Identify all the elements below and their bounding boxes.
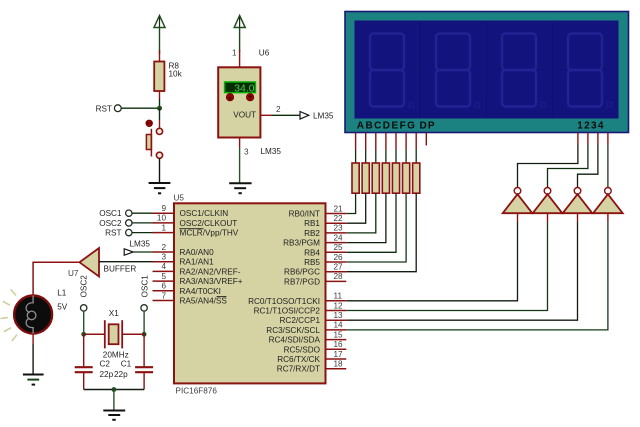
svg-text:ABCDEFG: ABCDEFG [357,120,417,131]
node C (ground rail) [112,387,117,392]
net tag LM35 (at RA0) [124,240,150,256]
wire buffer output to lamp [33,262,79,295]
svg-text:LM35: LM35 [130,240,151,249]
svg-text:RB2: RB2 [304,229,320,238]
chip right pin numbers [334,204,344,368]
svg-text:OSC2/CLKOUT: OSC2/CLKOUT [180,219,238,228]
svg-text:PIC16F876: PIC16F876 [176,387,218,396]
svg-text:25: 25 [334,243,344,252]
decimal point dots [409,103,612,108]
wire tag to pin 2 [133,251,152,253]
svg-text:RC6/TX/CK: RC6/TX/CK [277,355,320,364]
lamp L1 [1,289,68,342]
resistor RC [372,163,379,193]
transistor Q1 [503,188,533,214]
wire digit 3 to transistor Q3 [578,144,598,187]
wire digit 2 to transistor Q2 [548,144,588,187]
node junction R8/RST/button [157,106,162,111]
svg-text:6: 6 [161,282,166,291]
svg-text:18: 18 [334,360,344,369]
svg-text:34.0: 34.0 [234,84,254,95]
svg-text:12: 12 [334,301,344,310]
svg-text:RB1: RB1 [304,219,320,228]
display pin DP stub [425,133,427,146]
wire resistor RC to pin 23 [346,193,376,233]
resistor RA [352,163,359,193]
svg-text:21: 21 [334,204,344,213]
wire OSC2 terminal down to node A [83,311,85,334]
svg-text:2: 2 [276,105,281,114]
svg-text:RST: RST [96,105,112,114]
wire Q4 to pin 14 [346,213,608,330]
svg-text:OSC1: OSC1 [99,209,122,218]
svg-text:OSC2: OSC2 [99,219,122,228]
svg-text:RA4/T0CKI: RA4/T0CKI [180,287,221,296]
power arrow VCC2 [234,16,245,53]
display digit pin 4 stub [607,133,609,145]
svg-text:RC3/SCK/SCL: RC3/SCK/SCL [266,326,320,335]
svg-text:9: 9 [161,204,166,213]
svg-text:OSC2: OSC2 [80,275,89,298]
svg-text:RC0/T1OSO/T1CKI: RC0/T1OSO/T1CKI [248,297,320,306]
svg-text:17: 17 [334,350,344,359]
node B (X1 right) [142,332,147,337]
svg-text:OSC1/CLKIN: OSC1/CLKIN [180,209,229,218]
crystal X1 [84,309,144,360]
ground under U6 [229,183,251,193]
wire digit 4 to transistor Q4 [607,144,609,187]
wire digit 1 to transistor Q1 [518,144,578,187]
svg-text:X1: X1 [109,309,119,318]
svg-text:23: 23 [334,224,344,233]
svg-text:2: 2 [161,243,166,252]
wire C2 to C1 bottom rail [84,389,144,391]
chip left pin names [180,209,243,305]
display digit pin 1 stub [577,133,579,145]
display digit pin 2 stub [587,133,589,145]
node A (X1 left) [81,332,86,337]
power arrow VCC1 [154,16,165,55]
wire resistor RD to pin 24 [346,193,386,242]
U6 pin 2 stub [261,114,273,116]
svg-text:11: 11 [334,292,343,301]
display segment pins A-G [356,133,417,151]
svg-text:BUFFER: BUFFER [104,265,137,274]
wire button to ground [159,158,161,183]
svg-text:RA1/AN1: RA1/AN1 [180,258,215,267]
svg-text:RA5/AN4/SS: RA5/AN4/SS [180,297,228,306]
svg-text:22p: 22p [100,370,114,379]
ground under button [149,183,171,193]
wire VCC2 to U6 pin 1 [239,50,241,67]
svg-text:RB7/PGD: RB7/PGD [284,277,320,286]
svg-text:RC5/SDO: RC5/SDO [284,345,320,354]
wire Q2 to pin 12 [346,213,547,310]
svg-text:1234: 1234 [577,120,604,131]
resistor RG [413,163,420,193]
svg-text:RB6/PGC: RB6/PGC [284,268,320,277]
chip right pin names [248,210,320,374]
wire OSC1 terminal down to node B [143,311,145,334]
terminal OSC2 (chip left) [99,219,132,228]
svg-text:RC7/RX/DT: RC7/RX/DT [277,365,320,374]
chip left pin stubs 9,10,1,2,3,4,5,6,7 [153,213,175,300]
svg-text:U5: U5 [174,194,185,203]
resistor R8 [154,62,182,92]
svg-text:VOUT: VOUT [233,111,256,120]
resistor RF [403,163,410,193]
svg-text:U7: U7 [68,269,79,278]
digit 1 segments [370,34,404,107]
terminal OSC1 (chip left) [99,209,132,218]
svg-text:10k: 10k [169,70,183,79]
display DS1 4-digit 7-segment [345,12,629,133]
resistor RE [392,163,399,193]
terminal RST (top) [96,105,122,114]
wire node C to ground [113,390,115,411]
chip U5 PIC16F876 body [174,194,326,396]
svg-text:1: 1 [232,49,237,58]
wire lamp to ground [32,334,34,375]
wires segment pins to resistors [356,150,417,163]
overline MCLR [180,228,204,230]
chip right pin stubs 21-28 and 11-18 [326,214,347,369]
svg-text:RB5: RB5 [304,258,320,267]
wire resistor RA to pin 21 [346,193,355,213]
terminal RST (chip left) [105,229,132,238]
chip left pin numbers [157,204,167,300]
ground under crystal [103,411,125,420]
transistor Q2 [533,188,563,214]
svg-text:RC4/SDI/SDA: RC4/SDI/SDA [269,336,321,345]
overline SS [217,296,227,298]
wire RST to junction [121,107,159,109]
capacitor C2 [75,334,114,389]
svg-text:LM35: LM35 [313,112,334,121]
svg-text:14: 14 [334,321,344,330]
svg-text:MCLR/Vpp/THV: MCLR/Vpp/THV [180,229,239,238]
ground under lamp [23,375,44,385]
digit 3 segments [502,34,536,107]
svg-text:U6: U6 [259,49,270,58]
svg-text:27: 27 [334,263,344,272]
svg-text:5V: 5V [57,303,68,312]
svg-text:3: 3 [244,148,249,157]
wire Q3 to pin 13 [346,213,577,320]
wire U6 VOUT to tag [272,114,300,116]
svg-text:RB4: RB4 [304,248,320,257]
svg-text:RB0/INT: RB0/INT [289,210,320,219]
wire resistor RE to pin 25 [346,193,396,252]
svg-text:RC1/T1OSI/CCP2: RC1/T1OSI/CCP2 [254,307,321,316]
wire OSC1 terminal to pin 9 [132,212,153,214]
svg-text:22p: 22p [114,370,128,379]
digit 4 segments [568,34,602,107]
U6 pin 3 wire to ground [240,138,249,184]
svg-text:5: 5 [161,272,166,281]
svg-text:20MHz: 20MHz [103,351,129,360]
svg-text:DP: DP [420,120,436,131]
svg-text:4: 4 [161,262,166,271]
svg-text:26: 26 [334,253,344,262]
wire VCC1 to R8 [159,50,161,62]
svg-text:3: 3 [161,253,166,262]
svg-text:1: 1 [161,223,166,232]
svg-text:RA2/AN2/VREF-: RA2/AN2/VREF- [180,267,241,276]
wire R8 to node RST [159,91,161,99]
wire resistor RB to pin 22 [346,193,365,223]
svg-text:15: 15 [334,330,344,339]
svg-text:C2: C2 [100,360,111,369]
resistor RB [362,163,369,193]
net tag LM35 (at VOUT) [300,112,334,121]
svg-text:RA0/AN0: RA0/AN0 [180,248,215,257]
digit 2 segments [436,34,470,107]
wire resistor RG to pin 27 [346,193,416,271]
svg-text:RC2/CCP1: RC2/CCP1 [280,316,321,325]
transistor Q3 [563,188,593,214]
wire Q1 to pin 11 [346,213,517,301]
transistor Q4 [593,188,623,214]
wire resistor RF to pin 26 [346,193,406,262]
svg-text:16: 16 [334,340,344,349]
display digit pin 3 stub [597,133,599,145]
svg-text:22: 22 [334,214,344,223]
wire OSC2 terminal to pin 10 [132,222,153,224]
buffer U7 [68,248,136,278]
wire junction to button [159,108,161,120]
svg-text:28: 28 [334,272,344,281]
svg-text:RB3/PGM: RB3/PGM [283,239,320,248]
terminal OSC2 (crystal) [80,275,89,311]
svg-text:L1: L1 [57,289,67,298]
svg-text:OSC1: OSC1 [140,275,149,298]
sensor U6 LM35 body [218,67,260,137]
svg-text:10: 10 [157,214,167,223]
svg-text:RA3/AN3/VREF+: RA3/AN3/VREF+ [180,277,243,286]
svg-text:LM35: LM35 [261,147,282,156]
button S1 [146,120,163,158]
svg-text:7: 7 [161,291,166,300]
svg-text:24: 24 [334,233,344,242]
resistor RD [382,163,389,193]
svg-text:C1: C1 [121,360,132,369]
terminal OSC1 (crystal) [140,275,149,311]
wire pin 3 to buffer input [99,261,153,263]
wire RST terminal to pin 1 [132,232,153,234]
svg-text:RST: RST [105,229,121,238]
svg-text:13: 13 [334,311,344,320]
capacitor C1 [114,334,153,389]
